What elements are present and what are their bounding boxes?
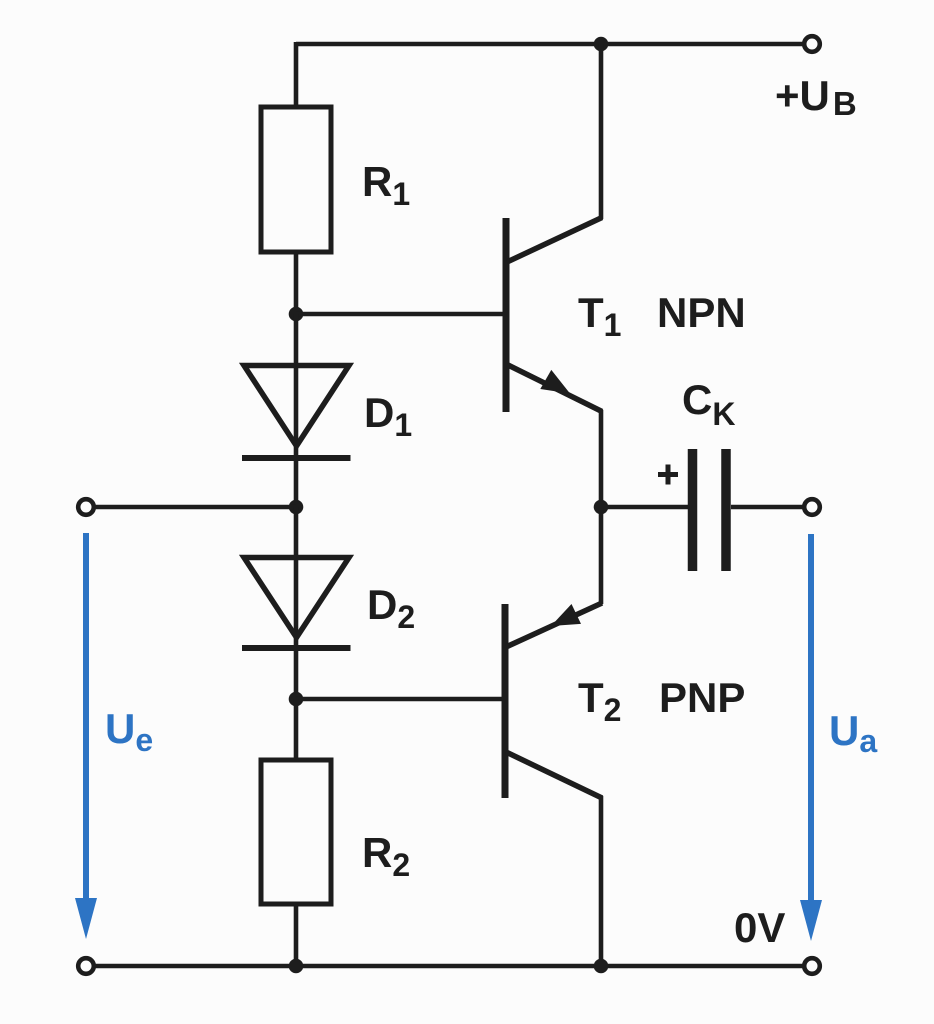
terminal input left bbox=[78, 499, 94, 515]
wire T2 collector vertical bbox=[599, 796, 604, 966]
diode D2 bbox=[242, 558, 351, 649]
wire T1 collector vertical bbox=[599, 44, 604, 219]
arrow Ua (output voltage) bbox=[800, 534, 822, 941]
wire output to capacitor bbox=[601, 505, 688, 510]
polarity plus sign bbox=[658, 465, 678, 485]
junction node B (input node) bbox=[289, 500, 304, 515]
transistor T1 base bar bbox=[503, 218, 510, 412]
junction node bottom T2 collector bbox=[594, 959, 609, 974]
diode D1 bbox=[242, 366, 351, 459]
wire T2 emitter vertical bbox=[599, 507, 604, 604]
wire node C to R2 bbox=[294, 699, 299, 760]
capacitor CK bbox=[693, 449, 727, 571]
wire top rail bbox=[296, 42, 812, 47]
wire capacitor to output terminal bbox=[731, 505, 812, 510]
arrow Ue (input voltage) bbox=[75, 533, 97, 939]
transistor T1 collector diagonal bbox=[507, 218, 602, 263]
transistor T2 emitter diagonal bbox=[506, 603, 602, 647]
svg-text:NPN: NPN bbox=[657, 289, 746, 336]
wire through D2 bbox=[294, 507, 299, 699]
terminal output right bbox=[804, 499, 820, 515]
resistor R1 bbox=[261, 107, 331, 252]
junction node top rail bbox=[594, 37, 609, 52]
terminal bottom left bbox=[78, 958, 94, 974]
junction node output bbox=[594, 500, 609, 515]
wire input bbox=[86, 505, 296, 510]
terminal +UB bbox=[804, 36, 820, 52]
wire bottom rail bbox=[86, 964, 812, 969]
junction node A (R1/D1/T1 base) bbox=[289, 307, 304, 322]
wire through D1 bbox=[294, 314, 299, 507]
wire T1 base bbox=[296, 312, 504, 317]
transistor T2 emitter arrow bbox=[551, 604, 581, 626]
junction node bottom left column bbox=[289, 959, 304, 974]
junction node C (D2/R2/T2 base) bbox=[289, 692, 304, 707]
transistor T2 base bar bbox=[502, 604, 509, 798]
transistor T1 emitter diagonal bbox=[507, 365, 602, 412]
wire top rail to R1 bbox=[294, 42, 299, 107]
transistor T1 emitter arrow bbox=[540, 370, 570, 394]
wire T1 emitter vertical bbox=[599, 410, 604, 507]
terminal bottom right bbox=[804, 958, 820, 974]
svg-text:0V: 0V bbox=[734, 904, 785, 951]
wire R1 to node A bbox=[294, 252, 299, 314]
svg-text:PNP: PNP bbox=[659, 674, 745, 721]
resistor R2 bbox=[261, 760, 331, 904]
wire T2 base bbox=[296, 697, 504, 702]
transistor T2 collector diagonal bbox=[506, 752, 602, 798]
wire R2 to bottom rail bbox=[294, 904, 299, 966]
